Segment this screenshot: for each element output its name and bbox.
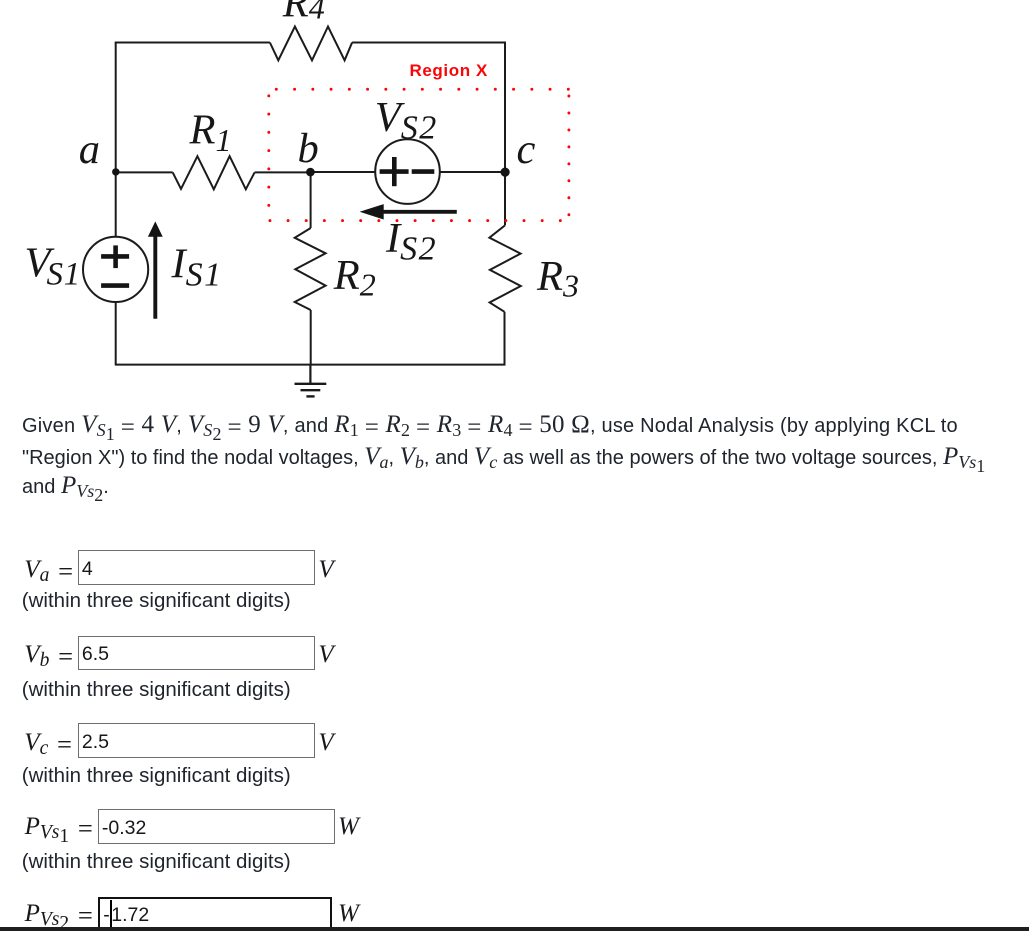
svg-text:R4: R4 bbox=[282, 0, 325, 27]
wire node a down to VS1 bbox=[115, 172, 117, 237]
answer row Vb label bbox=[24, 641, 73, 672]
Region X dotted border top edge bbox=[276, 88, 569, 91]
resistor R1 bbox=[173, 156, 255, 189]
resistor R3 bbox=[489, 226, 520, 312]
ground stub bbox=[309, 365, 311, 384]
VS1 plus sign bbox=[101, 245, 129, 268]
answer row Vb note bbox=[22, 678, 291, 702]
wire top horizontal, right of R4 bbox=[352, 42, 506, 44]
wire R2 to bottom rail bbox=[310, 310, 312, 365]
bottom frame edge line bbox=[0, 927, 1029, 931]
answer row PVs1 unit bbox=[338, 813, 359, 841]
resistor R4 bbox=[270, 27, 352, 61]
wire VS2 to node c bbox=[440, 171, 505, 173]
answer row Va unit bbox=[318, 556, 333, 584]
answer row Vc label bbox=[24, 729, 72, 760]
svg-text:R1: R1 bbox=[189, 106, 232, 158]
wire left vertical: top-left corner down to node a bbox=[115, 43, 117, 173]
svg-text:a: a bbox=[79, 126, 100, 173]
wire node c down to R3 bbox=[504, 172, 506, 226]
answer row Vb input box bbox=[78, 636, 314, 670]
node a junction dot bbox=[112, 168, 119, 175]
problem statement paragraph line 2 bbox=[22, 442, 985, 481]
current IS2 arrow bbox=[360, 204, 457, 219]
problem statement paragraph line 1 bbox=[22, 410, 958, 449]
wire right vertical: top-right corner down to node c bbox=[504, 42, 506, 173]
answer row Vb unit bbox=[318, 641, 333, 669]
Region X dotted border bottom edge bbox=[270, 219, 569, 222]
answer row Va label bbox=[24, 556, 73, 587]
wire R1 to node b bbox=[255, 171, 311, 173]
svg-text:b: b bbox=[298, 125, 319, 172]
node c junction dot bbox=[501, 168, 510, 177]
svg-text:VS1: VS1 bbox=[25, 240, 82, 293]
VS2 plus sign bbox=[380, 157, 409, 186]
answer row Vc unit bbox=[318, 729, 333, 757]
Region X dotted border left edge bbox=[267, 96, 270, 223]
wire node a to R1 bbox=[116, 171, 173, 173]
svg-text:VS2: VS2 bbox=[375, 94, 438, 147]
svg-text:IS2: IS2 bbox=[385, 215, 437, 268]
answer row PVs2 focused input box bbox=[98, 897, 332, 930]
text caret bbox=[110, 900, 112, 927]
svg-text:IS1: IS1 bbox=[171, 241, 223, 294]
wire node b to VS2 bbox=[311, 171, 376, 173]
wire node b down to R2 bbox=[310, 172, 312, 228]
answer row PVs1 note bbox=[22, 850, 291, 874]
svg-text:c: c bbox=[517, 126, 536, 173]
current source IS1 arrow bbox=[148, 221, 163, 318]
answer row PVs1 label bbox=[25, 813, 93, 848]
voltage source VS2 circle bbox=[375, 139, 440, 204]
wire top horizontal, left of R4 bbox=[115, 42, 270, 44]
ground symbol bbox=[295, 384, 327, 397]
answer row PVs2 label bbox=[25, 900, 93, 935]
svg-text:Region X: Region X bbox=[410, 61, 489, 80]
answer row Va input box bbox=[78, 550, 314, 584]
wire VS1 to bottom rail bbox=[115, 302, 117, 364]
VS2 minus sign bbox=[412, 169, 435, 174]
circuit schematic SVG bbox=[0, 0, 650, 410]
svg-text:R2: R2 bbox=[333, 252, 376, 303]
answer row Vc note bbox=[22, 764, 291, 788]
answer row Vc input box bbox=[78, 723, 314, 757]
VS1 minus sign bbox=[101, 283, 129, 288]
answer row PVs1 input box bbox=[98, 809, 335, 843]
problem statement paragraph line 3 bbox=[22, 471, 109, 510]
Region X dotted border right edge bbox=[567, 96, 570, 216]
wire bottom rail bbox=[115, 364, 506, 366]
answer row PVs2 unit bbox=[338, 900, 359, 928]
answer row Va note bbox=[22, 589, 291, 613]
resistor R2 bbox=[295, 228, 326, 310]
node b junction dot bbox=[306, 168, 315, 177]
wire R3 to bottom rail bbox=[504, 312, 506, 365]
voltage source VS1 circle bbox=[83, 237, 148, 302]
svg-text:R3: R3 bbox=[536, 253, 579, 304]
